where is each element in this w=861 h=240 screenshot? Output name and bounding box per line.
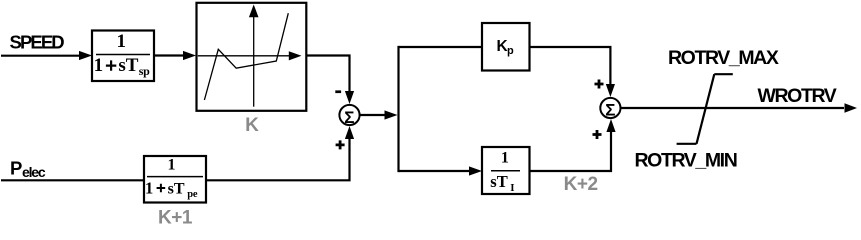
wire P_elec input	[1, 179, 144, 181]
nonlinear block vertical axis	[253, 16, 255, 107]
wire summer 2 output	[621, 107, 844, 109]
svg-text:1: 1	[117, 31, 127, 52]
wire summer 1 output to branch node	[360, 114, 386, 116]
block integrator 1/(sTI)	[482, 147, 530, 194]
wire integrator to summer 2	[530, 130, 612, 171]
svg-text:ROTRV_MAX: ROTRV_MAX	[668, 47, 779, 69]
wire branch to integrator	[399, 170, 472, 172]
wire branch to Kp	[399, 46, 483, 48]
svg-text:WROTRV: WROTRV	[758, 85, 837, 107]
wire Kp to summer 2	[530, 47, 611, 86]
plus sign (summer 2 bottom input)	[593, 130, 602, 139]
summing junction S2	[600, 98, 620, 120]
svg-text:K: K	[245, 115, 259, 136]
svg-text:1: 1	[94, 55, 104, 76]
svg-text:Σ: Σ	[344, 108, 354, 127]
wire block Pe to summer 1 bottom	[206, 137, 350, 180]
svg-text:I: I	[510, 182, 514, 194]
svg-text:Σ: Σ	[605, 101, 615, 120]
svg-text:1: 1	[501, 150, 509, 167]
plus sign (summer 2 top input)	[595, 80, 604, 89]
nonlinear block curve	[204, 13, 288, 100]
minus sign (summer 1 top input)	[335, 90, 341, 93]
wire SPEED input	[1, 55, 81, 57]
nonlinear function block box	[197, 3, 307, 111]
nonlinear block horizontal axis	[198, 55, 290, 57]
block electrical power transducer 1/(1+sTpe)	[144, 156, 206, 203]
block speed transducer 1/(1+sTsp)	[92, 31, 154, 82]
wire nonlinear block to summer 1	[306, 56, 350, 94]
plus sign (summer 1 bottom input)	[336, 140, 345, 149]
svg-text:pe: pe	[187, 189, 198, 200]
svg-text:1: 1	[168, 156, 176, 173]
block Kp	[482, 23, 530, 71]
svg-text:SPEED: SPEED	[10, 32, 65, 53]
svg-text:K+2: K+2	[564, 174, 598, 195]
svg-text:sT: sT	[490, 172, 507, 191]
wire branch vertical	[397, 46, 399, 172]
svg-text:sT: sT	[118, 55, 138, 76]
svg-text:K+1: K+1	[158, 208, 193, 229]
svg-text:1: 1	[145, 178, 153, 197]
svg-text:P: P	[10, 158, 22, 179]
limiter symbol	[677, 74, 733, 144]
summing junction S1	[339, 105, 359, 127]
svg-text:ROTRV_MIN: ROTRV_MIN	[635, 149, 737, 171]
svg-text:p: p	[507, 45, 514, 57]
wire block1 to nonlinear block	[154, 54, 185, 56]
svg-text:sT: sT	[168, 180, 185, 197]
svg-text:elec: elec	[22, 164, 46, 180]
svg-text:sp: sp	[139, 64, 150, 78]
